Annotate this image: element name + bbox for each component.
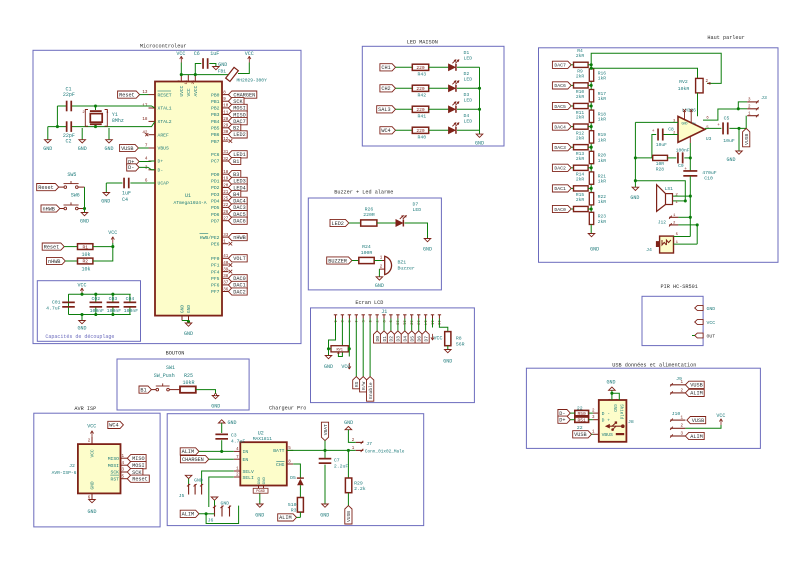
svg-text:DAC3: DAC3: [554, 145, 566, 151]
svg-text:GND: GND: [375, 283, 384, 289]
svg-text:PF1: PF1: [211, 263, 220, 269]
svg-text:LED: LED: [464, 55, 473, 61]
svg-text:R18: R18: [598, 112, 607, 118]
svg-text:2.2k: 2.2k: [354, 486, 366, 492]
svg-text:SW1: SW1: [166, 365, 175, 371]
svg-text:U1: U1: [185, 193, 191, 199]
svg-text:J1: J1: [381, 309, 387, 315]
svg-text:J8: J8: [628, 419, 634, 425]
svg-text:ALIM: ALIM: [182, 449, 194, 455]
svg-text:R24: R24: [362, 244, 371, 250]
svg-text:C6: C6: [194, 51, 200, 57]
svg-text:VOLT: VOLT: [233, 256, 245, 262]
svg-text:EN: EN: [243, 457, 249, 463]
svg-text:J2: J2: [69, 463, 75, 469]
svg-text:PB0: PB0: [211, 92, 220, 98]
svg-text:+: +: [652, 129, 655, 134]
svg-text:VUSB: VUSB: [690, 383, 702, 389]
svg-text:220: 220: [416, 128, 425, 134]
svg-text:VCC: VCC: [341, 364, 350, 370]
svg-text:1uF: 1uF: [210, 51, 219, 57]
svg-text:PB7: PB7: [211, 139, 220, 145]
svg-text:U2: U2: [258, 431, 264, 437]
svg-text:DAC2: DAC2: [554, 166, 566, 172]
svg-text:GND: GND: [612, 404, 616, 412]
svg-text:GND: GND: [258, 476, 262, 484]
svg-text:PB4: PB4: [211, 119, 220, 125]
svg-text:CHARGEN: CHARGEN: [182, 457, 204, 463]
svg-text:VCC: VCC: [245, 51, 254, 57]
svg-text:PE6: PE6: [211, 241, 220, 247]
svg-text:VUSB: VUSB: [574, 432, 586, 438]
svg-text:18: 18: [142, 117, 148, 122]
svg-text:XTAL2: XTAL2: [158, 119, 172, 125]
svg-text:DAC4: DAC4: [554, 124, 566, 130]
svg-text:nHWB: nHWB: [233, 235, 245, 241]
svg-text:C9: C9: [678, 163, 684, 169]
svg-text:+: +: [717, 123, 720, 128]
svg-text:D7: D7: [413, 202, 419, 208]
svg-text:MAX1811: MAX1811: [253, 436, 273, 442]
svg-text:MOSI: MOSI: [108, 463, 119, 469]
svg-text:J7: J7: [366, 441, 372, 447]
svg-text:R50: R50: [578, 411, 587, 417]
svg-text:C7: C7: [334, 458, 340, 464]
svg-text:PIR HC-SR501: PIR HC-SR501: [661, 284, 698, 290]
svg-text:CH1: CH1: [381, 65, 390, 71]
svg-text:PD5: PD5: [211, 205, 220, 211]
svg-text:R25: R25: [184, 373, 193, 379]
svg-text:510: 510: [288, 502, 297, 508]
svg-text:220: 220: [416, 86, 425, 92]
svg-text:GND: GND: [682, 121, 688, 125]
svg-text:GND: GND: [221, 501, 230, 507]
svg-text:8Mhz: 8Mhz: [112, 118, 124, 124]
svg-text:SW6: SW6: [71, 192, 80, 198]
svg-text:VBUS: VBUS: [602, 432, 613, 438]
svg-text:GND: GND: [186, 305, 192, 313]
svg-text:PC7: PC7: [211, 159, 220, 165]
svg-text:6: 6: [608, 399, 612, 401]
svg-text:C4: C4: [122, 197, 128, 203]
svg-text:RESET: RESET: [158, 92, 172, 98]
svg-text:J10: J10: [672, 411, 681, 417]
svg-text:220R: 220R: [363, 212, 375, 218]
svg-text:R22: R22: [598, 194, 607, 200]
svg-text:D-: D-: [128, 165, 134, 171]
svg-text:PF5: PF5: [211, 276, 220, 282]
svg-text:Enable: Enable: [368, 382, 374, 399]
svg-text:GND: GND: [630, 195, 639, 201]
svg-text:VCC: VCC: [186, 88, 192, 96]
svg-text:UVCC: UVCC: [179, 85, 185, 96]
svg-text:USB données et alimentation: USB données et alimentation: [612, 362, 696, 368]
svg-text:D1: D1: [464, 50, 470, 56]
svg-text:DAC0: DAC0: [554, 207, 566, 213]
svg-text:VCC: VCC: [108, 230, 117, 236]
svg-text:VUSB: VUSB: [346, 511, 352, 522]
svg-text:GND: GND: [101, 199, 110, 205]
svg-text:PD3: PD3: [211, 192, 220, 198]
svg-text:1uF: 1uF: [122, 191, 131, 197]
svg-text:D2: D2: [389, 336, 395, 342]
svg-text:R28: R28: [656, 167, 665, 173]
svg-text:SW_Push: SW_Push: [154, 373, 175, 379]
svg-text:R43: R43: [417, 72, 426, 78]
svg-text:VUSB: VUSB: [692, 418, 704, 424]
svg-text:GND: GND: [104, 146, 113, 152]
svg-text:Reset: Reset: [119, 92, 135, 98]
svg-text:D4: D4: [464, 113, 470, 119]
svg-text:VCC: VCC: [87, 423, 96, 429]
svg-text:GND: GND: [194, 478, 203, 484]
svg-text:2kR: 2kR: [576, 53, 585, 59]
svg-text:D5: D5: [410, 336, 416, 342]
svg-text:PGND: PGND: [256, 490, 265, 494]
svg-text:AVR-ISP-6: AVR-ISP-6: [52, 470, 77, 476]
svg-text:220: 220: [416, 65, 425, 71]
svg-text:SELV: SELV: [243, 469, 254, 475]
svg-text:GND: GND: [180, 305, 186, 313]
svg-text:R23: R23: [598, 214, 607, 220]
svg-text:ALIM: ALIM: [690, 434, 702, 440]
svg-text:C3: C3: [231, 433, 237, 439]
svg-text:J4: J4: [646, 247, 652, 253]
svg-text:HWB/PE2: HWB/PE2: [200, 235, 220, 241]
svg-text:10R: 10R: [656, 161, 665, 167]
svg-text:1kR: 1kR: [598, 117, 607, 123]
svg-text:SAL3: SAL3: [378, 107, 390, 113]
svg-text:Buzzer + Led alarme: Buzzer + Led alarme: [334, 189, 393, 195]
svg-text:LS1: LS1: [665, 186, 674, 192]
svg-text:2.2uF: 2.2uF: [334, 463, 349, 469]
svg-text:10kR: 10kR: [182, 380, 194, 386]
svg-text:VCC: VCC: [176, 51, 185, 57]
svg-text:MISO: MISO: [132, 456, 144, 462]
svg-text:R20: R20: [598, 153, 607, 159]
svg-text:C02: C02: [91, 296, 100, 302]
svg-text:GND: GND: [475, 141, 484, 147]
svg-text:2kR: 2kR: [576, 74, 585, 80]
svg-text:2kR: 2kR: [576, 177, 585, 183]
svg-text:C8: C8: [668, 127, 674, 133]
svg-text:PB6: PB6: [211, 132, 220, 138]
svg-text:OUT: OUT: [707, 334, 716, 340]
svg-text:LED2: LED2: [331, 221, 343, 227]
svg-text:ALIM: ALIM: [690, 391, 702, 397]
svg-text:4: 4: [145, 157, 148, 162]
svg-text:VCC: VCC: [77, 283, 86, 289]
svg-text:PD0: PD0: [211, 172, 220, 178]
svg-text:WC4: WC4: [109, 423, 118, 429]
svg-text:4.7uF: 4.7uF: [46, 306, 61, 312]
svg-text:2kR: 2kR: [576, 115, 585, 121]
svg-text:RST: RST: [111, 476, 120, 482]
svg-text:J5: J5: [179, 493, 185, 499]
svg-text:39: 39: [223, 268, 229, 272]
svg-text:4.7uF: 4.7uF: [231, 438, 246, 444]
svg-text:Shield: Shield: [619, 404, 624, 420]
svg-text:GND: GND: [228, 420, 237, 426]
svg-text:VCC: VCC: [90, 449, 96, 457]
svg-text:AVR ISP: AVR ISP: [74, 406, 96, 412]
svg-text:C2: C2: [65, 139, 71, 145]
svg-text:10kR: 10kR: [678, 86, 690, 92]
svg-text:10uF: 10uF: [723, 138, 735, 144]
svg-text:22pF: 22pF: [63, 92, 75, 98]
svg-text:56R: 56R: [456, 341, 465, 347]
svg-text:GND: GND: [263, 476, 267, 484]
svg-text:220: 220: [416, 107, 425, 113]
svg-text:1kR: 1kR: [598, 158, 607, 164]
svg-text:R8: R8: [456, 336, 462, 342]
svg-text:PD2: PD2: [211, 185, 220, 191]
svg-text:PD4: PD4: [211, 199, 220, 205]
svg-text:PD7: PD7: [211, 218, 220, 224]
svg-text:LED: LED: [464, 118, 473, 124]
svg-text:XTAL1: XTAL1: [158, 106, 172, 112]
svg-text:LED MAISON: LED MAISON: [407, 40, 438, 46]
svg-text:DAC5: DAC5: [554, 104, 566, 110]
svg-text:LED: LED: [413, 207, 422, 213]
svg-text:J12: J12: [658, 219, 667, 225]
svg-text:PB3: PB3: [211, 112, 220, 118]
svg-text:GND: GND: [255, 513, 264, 519]
svg-text:C01: C01: [52, 300, 61, 306]
svg-text:+: +: [684, 167, 687, 172]
svg-text:PF0: PF0: [211, 256, 220, 262]
svg-text:R29: R29: [354, 480, 363, 486]
svg-text:LED2: LED2: [233, 132, 245, 138]
svg-text:LED: LED: [464, 97, 473, 103]
svg-text:LED: LED: [464, 76, 473, 82]
svg-text:R19: R19: [598, 132, 607, 138]
svg-text:VBAT: VBAT: [323, 424, 329, 435]
svg-text:12: 12: [223, 138, 229, 142]
svg-text:VCC: VCC: [707, 320, 716, 326]
svg-text:Reset: Reset: [44, 244, 60, 250]
svg-text:FB1: FB1: [218, 69, 227, 75]
svg-text:GND: GND: [423, 247, 432, 253]
svg-text:D+: D+: [158, 159, 164, 165]
svg-text:D3: D3: [464, 92, 470, 98]
svg-text:GND: GND: [344, 420, 353, 426]
svg-text:PB5: PB5: [211, 126, 220, 132]
svg-text:R41: R41: [417, 114, 426, 120]
svg-text:R26: R26: [365, 207, 374, 213]
svg-text:Reset: Reset: [38, 185, 54, 191]
svg-text:AREF: AREF: [158, 132, 169, 138]
svg-text:BATT: BATT: [273, 448, 284, 454]
svg-text:1kR: 1kR: [598, 179, 607, 185]
svg-text:R1: R1: [82, 244, 88, 250]
svg-text:22: 22: [577, 405, 583, 411]
svg-text:PF6: PF6: [211, 283, 220, 289]
svg-text:C04: C04: [126, 296, 135, 302]
svg-text:2kR: 2kR: [576, 197, 585, 203]
svg-text:PC6: PC6: [211, 152, 220, 158]
svg-text:CH2: CH2: [381, 86, 390, 92]
svg-text:2kR: 2kR: [576, 135, 585, 141]
svg-text:IN: IN: [243, 449, 249, 455]
svg-text:Capacités de découplage: Capacités de découplage: [45, 334, 114, 340]
svg-text:10k: 10k: [81, 267, 90, 273]
svg-text:DAC2: DAC2: [233, 289, 245, 295]
svg-text:Microcontroleur: Microcontroleur: [140, 43, 187, 49]
svg-text:DAC1: DAC1: [554, 186, 566, 192]
svg-text:ALIM: ALIM: [279, 515, 291, 521]
svg-text:Buzzer: Buzzer: [398, 266, 415, 272]
svg-text:100R: 100R: [361, 250, 373, 256]
svg-text:GND: GND: [726, 157, 735, 163]
svg-text:GND: GND: [80, 219, 89, 225]
svg-text:GND: GND: [87, 509, 96, 515]
svg-text:24: 24: [192, 80, 196, 84]
svg-text:MH2029-300Y: MH2029-300Y: [237, 78, 268, 84]
svg-text:10uF: 10uF: [656, 142, 667, 148]
svg-text:J6: J6: [208, 518, 214, 524]
svg-text:1kR: 1kR: [598, 137, 607, 143]
svg-text:2kR: 2kR: [576, 156, 585, 162]
svg-text:BUZZER: BUZZER: [328, 258, 347, 264]
svg-text:GND: GND: [590, 247, 599, 253]
svg-text:Haut parleur: Haut parleur: [707, 35, 744, 41]
svg-text:AVCC: AVCC: [193, 85, 199, 96]
svg-text:VCC: VCC: [716, 413, 725, 419]
svg-text:Reset: Reset: [132, 477, 148, 483]
svg-text:BOUTON: BOUTON: [166, 351, 185, 357]
svg-text:R3: R3: [291, 508, 297, 514]
svg-text:GND: GND: [218, 62, 227, 68]
svg-text:VBUS: VBUS: [158, 146, 169, 152]
svg-text:C03: C03: [109, 296, 118, 302]
svg-text:2: 2: [178, 80, 182, 82]
svg-text:PB1: PB1: [211, 99, 220, 105]
svg-text:GND: GND: [320, 513, 329, 519]
svg-text:nHWB: nHWB: [42, 206, 54, 212]
svg-text:D5: D5: [290, 475, 296, 481]
svg-text:Conn_01x02_Male: Conn_01x02_Male: [365, 449, 405, 454]
svg-text:D7: D7: [423, 336, 429, 342]
svg-text:GND: GND: [77, 326, 86, 332]
svg-text:40: 40: [223, 262, 229, 266]
svg-text:R51: R51: [578, 417, 587, 423]
svg-text:DAC6: DAC6: [233, 219, 245, 225]
svg-text:ATmega16U4-A: ATmega16U4-A: [173, 200, 206, 206]
svg-text:PF7: PF7: [211, 289, 220, 295]
svg-text:R42: R42: [417, 93, 426, 99]
svg-text:C10: C10: [704, 175, 713, 181]
svg-text:14: 14: [185, 80, 189, 84]
svg-text:nHWB: nHWB: [48, 259, 60, 265]
svg-text:B1: B1: [233, 159, 239, 165]
svg-text:GND: GND: [78, 146, 87, 152]
svg-text:Chargeur Pro: Chargeur Pro: [269, 406, 306, 412]
svg-text:C5: C5: [724, 115, 730, 121]
svg-text:ALIM: ALIM: [182, 512, 194, 518]
svg-text:PD6: PD6: [211, 212, 220, 218]
svg-text:10k: 10k: [81, 252, 90, 258]
svg-text:Ecran LCD: Ecran LCD: [355, 300, 383, 306]
svg-text:470uF: 470uF: [702, 170, 717, 176]
svg-text:R2: R2: [82, 259, 88, 265]
svg-text:GND: GND: [184, 331, 193, 337]
svg-text:22: 22: [577, 425, 583, 431]
svg-text:R21: R21: [598, 173, 607, 179]
svg-text:WC4: WC4: [381, 128, 390, 134]
svg-text:GND: GND: [43, 146, 52, 152]
svg-text:GND: GND: [606, 380, 615, 386]
svg-text:100nF: 100nF: [107, 308, 122, 314]
svg-text:2kR: 2kR: [576, 94, 585, 100]
svg-text:SELI: SELI: [243, 475, 254, 481]
svg-text:MISO: MISO: [108, 456, 119, 462]
svg-text:J3: J3: [761, 95, 767, 101]
svg-text:PF4: PF4: [211, 269, 220, 275]
svg-text:3: 3: [673, 119, 675, 123]
svg-text:RV1: RV1: [336, 348, 342, 352]
svg-text:GND: GND: [211, 404, 220, 410]
svg-text:D -: D -: [602, 411, 611, 417]
svg-text:R16: R16: [598, 70, 607, 76]
svg-text:100nF: 100nF: [90, 308, 105, 314]
svg-text:SW5: SW5: [67, 172, 76, 178]
svg-text:GND: GND: [90, 481, 96, 489]
svg-text:2kR: 2kR: [598, 219, 607, 225]
svg-text:D+: D+: [559, 418, 565, 424]
svg-text:V+: V+: [692, 121, 696, 125]
svg-text:D-: D-: [158, 168, 164, 174]
svg-text:DAC6: DAC6: [554, 83, 566, 89]
svg-text:B1: B1: [140, 387, 146, 393]
svg-text:VUSB: VUSB: [121, 146, 133, 152]
svg-text:DAC7: DAC7: [554, 63, 566, 69]
svg-text:BZ1: BZ1: [398, 260, 407, 266]
svg-text:U3: U3: [706, 136, 712, 142]
svg-text:UCAP: UCAP: [158, 181, 169, 187]
svg-text:VUSB: VUSB: [744, 134, 750, 145]
svg-text:5: 5: [616, 399, 620, 401]
svg-text:CHG: CHG: [276, 462, 285, 468]
svg-text:R17: R17: [598, 91, 607, 97]
svg-text:RV2: RV2: [679, 79, 688, 85]
svg-text:1kR: 1kR: [598, 76, 607, 82]
svg-text:100nF: 100nF: [124, 308, 139, 314]
svg-text:R40: R40: [417, 135, 426, 141]
svg-text:PD1: PD1: [211, 179, 220, 185]
svg-text:D +: D +: [602, 418, 611, 424]
svg-text:VCC: VCC: [433, 336, 442, 342]
svg-text:GND: GND: [443, 359, 452, 365]
svg-text:GND: GND: [707, 306, 716, 312]
svg-text:100nF: 100nF: [676, 148, 690, 154]
svg-text:PB2: PB2: [211, 106, 220, 112]
svg-text:1kR: 1kR: [598, 96, 607, 102]
svg-text:1kR: 1kR: [598, 199, 607, 205]
svg-text:D2: D2: [464, 71, 470, 77]
svg-text:GND: GND: [324, 364, 333, 370]
